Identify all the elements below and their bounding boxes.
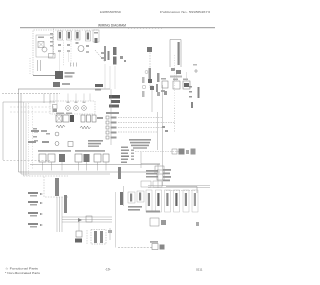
pin labels column6 xyxy=(121,147,128,149)
ice maker mold heater xyxy=(38,42,44,48)
net marks on dashed 2 xyxy=(165,130,168,132)
lamp socket L5 xyxy=(82,106,87,111)
drain heater label xyxy=(150,241,158,243)
board connector labels row2 xyxy=(75,150,105,152)
adaptive defrost control label3 xyxy=(109,105,119,108)
relay K1 label xyxy=(161,90,165,92)
connector column CN-A pins xyxy=(59,32,61,39)
wire tick CN2 xyxy=(51,162,53,171)
relay S1 cross xyxy=(56,115,62,122)
ice maker fill switch xyxy=(49,54,56,59)
freezer section bottom edge xyxy=(33,75,56,77)
connector column CN-B xyxy=(67,31,72,40)
net arrow 4 xyxy=(40,224,43,226)
freezer mid marks2 xyxy=(101,57,104,59)
net label VDA line2 xyxy=(30,226,37,228)
crisper label xyxy=(31,130,39,132)
board connector CN4 xyxy=(75,154,82,162)
door switch box B label xyxy=(139,193,141,201)
CN-C mark1 xyxy=(76,42,79,44)
aux mark right xyxy=(196,222,199,226)
adaptive defrost control label xyxy=(109,95,120,99)
relay load R2 xyxy=(106,121,109,124)
net marks on dashed xyxy=(162,126,165,128)
signal harness dashed enclosure xyxy=(44,177,68,198)
board connector CN3 xyxy=(59,154,65,162)
wire vertical net 5 xyxy=(157,112,159,150)
dispenser solenoid 4 label xyxy=(175,193,177,206)
connector column CN-E pins xyxy=(95,38,98,43)
start relay label vertical xyxy=(156,84,158,92)
defrost thermostat label xyxy=(62,83,70,85)
CN-E label xyxy=(94,32,98,34)
comm grid left edge xyxy=(140,152,142,168)
ground symbol xyxy=(194,69,198,73)
lamp socket L5 dot xyxy=(83,107,84,108)
header rule xyxy=(20,27,215,29)
border label speck 3 xyxy=(33,136,37,138)
ice maker inner box xyxy=(36,35,53,57)
wire vertical dashed net 7 xyxy=(174,108,176,133)
pin numbers speck 1 xyxy=(131,150,134,152)
relay S2 blob xyxy=(70,115,74,122)
terminal speck 3 xyxy=(83,102,86,104)
door switch SW1 xyxy=(68,142,73,147)
water tank box xyxy=(150,218,159,226)
pin labels column2 xyxy=(121,153,128,155)
right pin labels2 xyxy=(163,173,170,175)
signal harness vertical label xyxy=(55,178,59,196)
signal note text2 xyxy=(88,143,101,145)
fresh food dashed inner line 2 xyxy=(10,111,54,113)
wire tick trio 1 xyxy=(70,63,72,67)
net arrow 1 xyxy=(40,193,43,195)
dispenser top rail xyxy=(148,185,210,187)
wire dashed net 2 xyxy=(118,122,175,124)
diode D1 xyxy=(78,218,82,222)
relay load R2 label xyxy=(111,122,117,124)
wire stub relay K3 xyxy=(186,72,188,81)
fresh food dashed border xyxy=(3,160,50,162)
lamp socket L4 xyxy=(74,106,79,111)
wire dc bus 1 xyxy=(56,197,58,232)
door switch box B xyxy=(137,191,144,202)
mullion wire vertical xyxy=(109,228,111,240)
CN-A mark1 xyxy=(58,44,61,46)
comm grid drop xyxy=(157,164,159,188)
ground label xyxy=(193,64,197,66)
wire vertical net 6 xyxy=(162,85,164,186)
CN-D mark1 xyxy=(86,45,89,47)
connector column CN-C xyxy=(75,31,80,40)
relay load R4 label xyxy=(111,132,117,134)
plug C xyxy=(186,150,189,154)
ground pin text 3 xyxy=(189,96,192,98)
wire dashed net 3 xyxy=(118,127,163,129)
start device label vertical xyxy=(157,73,160,82)
dispenser solenoid 6 xyxy=(192,190,198,212)
schematic note text xyxy=(129,139,151,141)
connector column CN-D pins xyxy=(87,33,89,40)
relay K2 top label xyxy=(173,79,178,81)
connector block pair xyxy=(53,105,58,109)
net label RD xyxy=(28,201,38,203)
door switch box A label xyxy=(130,194,132,202)
heater label xyxy=(97,117,103,119)
control vertical label xyxy=(118,167,121,179)
dispenser solenoid 6 label xyxy=(194,193,196,206)
relay load R1 xyxy=(106,116,109,119)
mullion heater label xyxy=(94,231,97,243)
wire drop node A xyxy=(43,94,45,104)
net label 12VDC xyxy=(28,192,38,194)
pin text column xyxy=(50,33,53,35)
condenser fan wire xyxy=(149,47,151,88)
wire dashed right drop xyxy=(174,55,176,108)
plug B xyxy=(179,149,185,155)
wire dc run 2 xyxy=(62,219,112,221)
relay row label2 xyxy=(66,113,72,115)
water valve note2 xyxy=(128,209,140,211)
pin labels column5 xyxy=(121,162,127,164)
CN-A mark2 xyxy=(58,50,61,52)
pin numbers speck 2 xyxy=(131,153,134,155)
aux box2 xyxy=(153,181,162,187)
dispenser vertical label xyxy=(120,192,123,205)
net label 12VDC line2 xyxy=(30,195,37,197)
wire drop column A xyxy=(59,52,61,71)
compressor motor label line2 xyxy=(113,57,117,65)
power cord box xyxy=(170,40,181,68)
relay load R5 label xyxy=(111,137,117,139)
svg-text:0211: 0211 xyxy=(196,268,203,272)
wire left bus 3 xyxy=(24,102,27,176)
wire stub relay K2 xyxy=(176,74,178,81)
wire right run xyxy=(166,187,197,194)
dispenser solenoid 3 xyxy=(165,190,171,212)
net label VDA xyxy=(28,223,38,225)
dispenser top rail 2 xyxy=(148,187,210,189)
svg-text:-19-: -19- xyxy=(105,268,111,272)
ice maker label MTR xyxy=(38,37,44,39)
relay K3 top label xyxy=(183,79,188,81)
net arrow 3 xyxy=(40,213,43,215)
wire AC bus 2 xyxy=(19,171,161,173)
board connector CN5 xyxy=(84,154,90,162)
wire tick CN7 xyxy=(105,162,107,171)
net label GND line2 xyxy=(30,215,37,217)
relay load R1 label xyxy=(111,117,117,119)
plug D xyxy=(191,149,196,155)
evap fan label vertical xyxy=(198,87,200,98)
wire ticks xyxy=(37,60,39,71)
condenser comp2 xyxy=(150,86,154,90)
defrost heater label2 xyxy=(65,76,73,78)
signal note text3 xyxy=(88,145,99,147)
ui board box xyxy=(155,166,164,174)
wire left bus 1 xyxy=(18,89,20,172)
resistor R6 zigzag xyxy=(56,125,65,128)
relay K1 xyxy=(162,81,168,88)
door switch label2 xyxy=(42,141,49,143)
svg-text:WIRING DIAGRAM: WIRING DIAGRAM xyxy=(98,24,126,28)
ground pin text 1 xyxy=(189,86,192,88)
wire center vertical xyxy=(110,89,112,145)
wire neutral dashed xyxy=(2,93,60,95)
connector column CN-C pins xyxy=(76,32,78,39)
wire drop J3 xyxy=(75,94,77,104)
wire drop J6 xyxy=(89,94,91,102)
connector column CN-D xyxy=(86,31,91,41)
relay K1 top label xyxy=(161,78,166,80)
CN-B mark1 xyxy=(67,44,70,46)
condenser fan label vertical xyxy=(149,68,152,82)
net label GND xyxy=(28,212,38,214)
evaporator fan motor M2 xyxy=(78,46,84,52)
wire dashed drop 2 xyxy=(70,41,72,66)
freezer mid marks xyxy=(101,52,104,54)
power cord label vertical xyxy=(178,42,180,65)
wire left dashed bus 4 xyxy=(28,103,30,176)
border label speck 1 xyxy=(33,128,37,130)
condenser fan circle xyxy=(145,71,148,74)
wire dc bus 2 xyxy=(59,197,61,232)
relay S2 xyxy=(63,115,69,122)
right pin labels xyxy=(163,169,171,171)
pin text column3 xyxy=(50,41,53,43)
freezer wire bus xyxy=(53,29,55,56)
heater H3 xyxy=(92,115,96,122)
relay K3 xyxy=(183,81,190,89)
board connector CN1 xyxy=(39,154,46,162)
wire drop column B xyxy=(68,52,70,62)
schematic note text2 xyxy=(130,142,150,144)
svg-text:Publication No. 5995B4673: Publication No. 5995B4673 xyxy=(160,10,210,14)
svg-text:* Non-Illuminated Parts: * Non-Illuminated Parts xyxy=(5,271,41,275)
wire drop J1 xyxy=(53,94,55,104)
fresh food dashed top line xyxy=(128,28,162,30)
dispenser solenoid 2 label xyxy=(157,193,159,206)
board connector CN7 xyxy=(103,154,109,162)
wire drop J4 xyxy=(83,94,85,102)
pin text column2 xyxy=(50,37,53,39)
lamp socket L3 xyxy=(66,106,71,111)
run capacitor C1 xyxy=(120,56,123,59)
dispenser solenoid 3 label xyxy=(166,193,168,206)
relay K2 xyxy=(173,81,180,89)
schematic note text3 xyxy=(131,145,149,147)
timer label2 xyxy=(95,89,101,91)
CN-B mark2 xyxy=(67,50,70,52)
schematic note text4 xyxy=(133,147,147,149)
condenser fan motor xyxy=(147,47,152,52)
ui box2 xyxy=(157,170,164,180)
drain heater comp2 xyxy=(160,245,165,250)
dispenser solenoid 4 xyxy=(174,190,180,212)
signal note text xyxy=(88,140,103,142)
wire tick CN5 xyxy=(86,162,88,171)
wire left bus 2 xyxy=(20,94,22,175)
adaptive defrost control label2 xyxy=(111,100,120,103)
wire drop J5 xyxy=(56,94,58,105)
start device text xyxy=(157,92,160,96)
fresh food section border xyxy=(3,102,55,160)
water valve note xyxy=(128,206,142,208)
wire tick CN3 xyxy=(61,162,63,171)
line filter xyxy=(171,68,175,71)
resistor R7 zigzag xyxy=(80,126,91,129)
water tank inner xyxy=(161,220,166,225)
comm grid row line xyxy=(141,163,160,165)
dispenser solenoid 5 xyxy=(183,190,189,212)
condenser wire vertical xyxy=(151,85,153,112)
CN-D mark2 xyxy=(86,51,89,53)
connector column CN-E xyxy=(93,30,99,42)
mullion mark xyxy=(108,230,112,233)
lamp L2 xyxy=(55,142,59,146)
water valve label xyxy=(146,211,160,213)
wire dc bus 3 xyxy=(61,197,63,232)
connector block pair 2 xyxy=(53,109,58,112)
harness vertical label 2 xyxy=(64,195,67,213)
fresh food inner dashed line xyxy=(10,106,55,108)
right pin labels4 xyxy=(163,180,170,182)
defrost heater label xyxy=(65,72,75,74)
ui note text3 xyxy=(146,176,158,178)
wire dc run 3 xyxy=(62,221,112,223)
border label speck 4 xyxy=(34,140,38,142)
wire AC bus 3 xyxy=(21,173,110,175)
wire drop compressor 3 xyxy=(114,66,116,89)
relay load R5 xyxy=(106,136,109,139)
ground pin text 2 xyxy=(189,91,192,93)
relay load R3 xyxy=(106,126,109,129)
ui note text2 xyxy=(146,173,157,175)
pin labels column xyxy=(121,150,129,152)
pin labels column3 xyxy=(121,156,129,158)
crisper label2 xyxy=(41,130,47,132)
freezer section dashed enclosure top extension xyxy=(77,29,98,31)
drain heater dashed wire xyxy=(118,247,152,249)
drain heater comp xyxy=(152,244,158,250)
condenser comp xyxy=(148,79,152,83)
svg-text:☆ Functional Parts: ☆ Functional Parts xyxy=(5,267,39,271)
sensor box xyxy=(86,216,92,222)
terminal speck 2 xyxy=(75,102,78,104)
wire drop compressor 2 xyxy=(109,66,111,89)
condenser circle 2 xyxy=(142,85,146,89)
humidity dashed wire xyxy=(86,230,88,244)
compressor run wire diagonal xyxy=(95,50,105,62)
relay load R3 label xyxy=(111,127,117,129)
defrost sensor label xyxy=(106,112,119,114)
wire tick trio 2 xyxy=(73,63,75,67)
humidity heater blob xyxy=(75,239,82,243)
line filter label xyxy=(170,76,182,78)
wire tick CN6 xyxy=(97,162,99,171)
crisper label3 xyxy=(46,133,50,135)
board connector CN2 xyxy=(48,154,55,162)
heater H1 xyxy=(81,115,85,122)
wire AC bus dashed xyxy=(24,175,69,177)
net label RD line2 xyxy=(30,204,37,206)
wire dashed drop 1 xyxy=(63,40,65,66)
aux box1 xyxy=(141,181,151,187)
plug A xyxy=(172,149,177,154)
dispenser feed wire xyxy=(115,192,117,248)
relay K3 contacts xyxy=(184,83,189,87)
compressor motor label xyxy=(113,47,117,55)
pin numbers speck 3 xyxy=(131,156,134,158)
relay S1 xyxy=(56,115,62,122)
lamp socket L3 dot xyxy=(67,107,68,108)
wire tick2 xyxy=(40,60,42,71)
line filter2 xyxy=(176,70,181,74)
start relay xyxy=(124,60,126,62)
evap fan label vertical 2 xyxy=(191,102,193,108)
relay load R4 xyxy=(106,131,109,134)
humidity switch xyxy=(76,231,82,237)
svg-text:EI28BS56PBSD: EI28BS56PBSD xyxy=(100,10,122,14)
wire AC bus 1 xyxy=(30,164,160,166)
wire drop node B xyxy=(49,94,51,104)
wire dashed net 4 xyxy=(118,131,157,133)
relay row label xyxy=(56,113,64,115)
connector column CN-A xyxy=(58,31,63,40)
freezer section dashed enclosure xyxy=(33,30,77,75)
defrost heater element xyxy=(55,71,63,79)
board connector labels row xyxy=(38,150,71,152)
ui note text xyxy=(146,170,158,172)
mullion heater dashed box xyxy=(91,230,106,245)
door switch label xyxy=(28,141,36,143)
board connector CN6 xyxy=(94,154,101,162)
door switch box A xyxy=(128,192,135,203)
ice maker motor xyxy=(42,47,47,52)
defrost thermostat xyxy=(53,82,60,87)
wire dash-dot left xyxy=(29,58,31,75)
border label speck 2 xyxy=(34,131,38,133)
terminal speck 1 xyxy=(67,102,70,104)
humidity feed wire xyxy=(78,222,80,231)
connector J row enclosure xyxy=(50,101,95,114)
junction blob xyxy=(164,91,167,95)
lamp L1 xyxy=(55,132,59,136)
wire tick CN4 xyxy=(78,162,80,171)
dispenser solenoid 1 label xyxy=(148,193,150,206)
lamp socket L4 dot xyxy=(75,107,76,108)
mullion heater label2 xyxy=(100,231,103,243)
wire drop compressor 1 xyxy=(104,64,106,89)
dispenser wire vertical xyxy=(123,186,125,206)
pin labels column4 xyxy=(121,159,128,161)
right pin labels3 xyxy=(163,176,171,178)
wire tick trio 3 xyxy=(76,63,78,67)
condenser side text xyxy=(142,77,145,83)
net arrow 2 xyxy=(40,202,43,204)
heater H2 xyxy=(87,115,91,122)
compressor label vertical xyxy=(104,46,106,61)
wire left dashed bus 5 xyxy=(32,108,34,170)
compressor overload xyxy=(108,51,110,60)
pin text column4 xyxy=(50,45,53,47)
wire right dashed run xyxy=(166,190,196,192)
timer label xyxy=(95,84,103,87)
wire dashed row xyxy=(135,151,180,153)
condenser side text 2 xyxy=(142,91,145,97)
wire dashed net 1 xyxy=(118,117,163,119)
pin numbers speck 4 xyxy=(131,159,134,161)
